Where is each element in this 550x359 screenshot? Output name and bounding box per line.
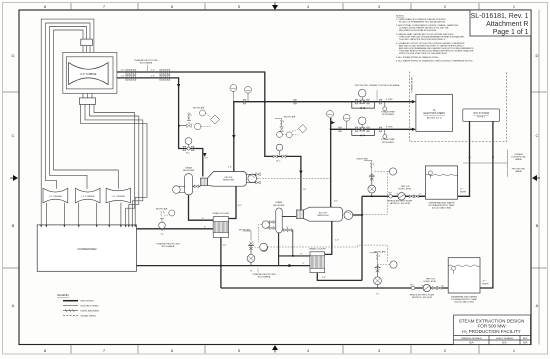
- svg-text:INSTR. AIR (NEW): INSTR. AIR (NEW): [81, 310, 100, 313]
- svg-text:NOTE 1: NOTE 1: [477, 117, 486, 119]
- LP turbine 2: [75, 188, 100, 203]
- svg-text:Page 1 of 1: Page 1 of 1: [493, 29, 529, 36]
- reboiler1 drain to drain cooler 1: [229, 186, 237, 218]
- svg-text:3 LPM: 3 LPM: [386, 99, 392, 101]
- svg-text:NO: NO: [389, 193, 393, 195]
- svg-text:3.5": 3.5": [238, 205, 242, 207]
- station1 bypass: [352, 102, 375, 108]
- svg-text:N/A: N/A: [502, 341, 507, 344]
- svg-text:HIGH LEVEL: HIGH LEVEL: [399, 188, 413, 190]
- PUMP 2 reboiler feed: [410, 278, 444, 299]
- feedwater: pump1 line, drop to reboiler2 right end: [353, 196, 426, 280]
- HP outer casing rect: [63, 52, 117, 93]
- junction dots: [220, 101, 373, 267]
- svg-text:STEAM TRAP: STEAM TRAP: [381, 111, 395, 114]
- svg-text:DRAIN: DRAIN: [185, 166, 192, 169]
- center alignment arrows: [272, 3, 278, 11]
- protected / owner area divider right: [463, 162, 507, 164]
- svg-text:4. STEAM AT OUTLET OF ELECTROL: 4. STEAM AT OUTLET OF ELECTROLYZERS CAN …: [396, 42, 465, 45]
- svg-text:A: A: [536, 303, 539, 308]
- TITLE BLOCK bottom right: [454, 315, 531, 345]
- svg-text:AND RECYCLED WITHIN THE HYEF T: AND RECYCLED WITHIN THE HYEF TO IMPROVE …: [399, 44, 464, 47]
- svg-text:THIS MAY RESULT IN REDUCED REB: THIS MAY RESULT IN REDUCED REBOILER FEED…: [399, 50, 474, 53]
- R/O line 2 to tank2: [480, 121, 493, 288]
- receiver2 side outlet w valves: [282, 230, 293, 256]
- svg-text:1. TEMPORARY R/O TRAILER CAN B: 1. TEMPORARY R/O TRAILER CAN BE UTILIZED: [396, 18, 446, 21]
- svg-text:Attachment R: Attachment R: [486, 21, 528, 28]
- LP2 exhaust stubs: [79, 203, 97, 225]
- H2 ELECTROLYZERS box: [416, 95, 453, 132]
- svg-text:NEW PIPING: NEW PIPING: [81, 301, 94, 303]
- svg-text:INSTR. AIR: INSTR. AIR: [156, 208, 168, 211]
- svg-text:DRAIN COOLER: DRAIN COOLER: [212, 212, 229, 215]
- svg-text:D: D: [536, 53, 539, 58]
- svg-text:APPROX. 350 GPM: APPROX. 350 GPM: [412, 296, 432, 299]
- svg-text:W/ BYPASS: W/ BYPASS: [382, 141, 394, 144]
- svg-text:INSTR. AIR: INSTR. AIR: [284, 116, 296, 119]
- receiver2 inlet from reboiler2 left end: [282, 216, 296, 218]
- signal dashed from receiver2 level to east: [257, 178, 388, 262]
- instruments on header1: [232, 91, 234, 102]
- FRAME right inner band line: [538, 10, 540, 345]
- DEMIN TANK 1: [425, 166, 457, 210]
- LP3 exhaust stubs: [109, 203, 121, 225]
- stubs above bottom MSR: [83, 93, 92, 98]
- svg-text:THROUGH THE USE OF A REGENERAT: THROUGH THE USE OF A REGENERATIVE HEAT E…: [399, 36, 465, 39]
- DRAIN COOLER 2: [309, 248, 326, 273]
- STATION 1 (header y=101.7): [355, 84, 400, 116]
- svg-text:REV: REV: [523, 338, 528, 340]
- CV assembly on 14in drop (x=179, y=125.7) with interlock diamond: [178, 106, 220, 129]
- assembly 3 on pump2 line (x=377.5, y=288): [370, 250, 398, 295]
- svg-text:B: B: [536, 223, 539, 228]
- HP turbine: [69, 63, 109, 85]
- svg-text:BLDG AREA: BLDG AREA: [162, 245, 175, 248]
- svg-text:RECEIVER: RECEIVER: [183, 170, 195, 172]
- control valve station on receiver1 feed line y=148.5: [183, 138, 209, 160]
- instruments near header2 / riser: [327, 111, 334, 118]
- svg-text:1.4": 1.4": [151, 75, 155, 77]
- svg-text:5": 5": [303, 263, 305, 265]
- STATION 2 (header y=129.3): [355, 117, 396, 144]
- svg-text:PROTECTED OWNER CONTROLLED AR: PROTECTED OWNER CONTROLLED AREA: [355, 84, 400, 87]
- svg-text:THIS WILL IMPROVE PROCESS EFFI: THIS WILL IMPROVE PROCESS EFFICIENCY.: [399, 39, 446, 41]
- assembly on condenser line (x=162, y=228.8): [156, 208, 180, 249]
- svg-text:AREA: AREA: [516, 170, 522, 173]
- ACTIVE REBOILER 2: [296, 207, 352, 221]
- tank1 suction line: [406, 195, 426, 197]
- svg-text:SIGNAL (NEW): SIGNAL (NEW): [81, 315, 96, 318]
- fan-out from bottom MSR to right risers: [81, 104, 148, 123]
- LEGEND: [57, 293, 99, 318]
- pump2 segment through pump: [448, 287, 480, 289]
- svg-text:2.0": 2.0": [151, 70, 155, 72]
- svg-text:BLDG AREA: BLDG AREA: [258, 276, 271, 279]
- EXISTING PLANT (thin lines): [41, 19, 147, 225]
- crossover loop A outermost: down to condenser: [41, 19, 94, 225]
- svg-text:1.4": 1.4": [121, 75, 125, 77]
- svg-text:KETTLE: KETTLE: [224, 177, 233, 179]
- svg-text:SL-016181, Rev. 1: SL-016181, Rev. 1: [471, 13, 529, 20]
- svg-text:1.6": 1.6": [334, 201, 338, 203]
- MSR top box: [81, 39, 93, 46]
- stubs below top MSR: [83, 46, 90, 53]
- svg-text:REBOILER: REBOILER: [223, 180, 234, 182]
- svg-text:NO: NO: [411, 284, 415, 286]
- valve groups on extraction lines: [121, 60, 171, 80]
- svg-text:TURBINE BLDG: TURBINE BLDG: [412, 77, 414, 93]
- svg-text:DEMINERALIZED WATER: DEMINERALIZED WATER: [451, 295, 477, 298]
- svg-text:R/O SYSTEM: R/O SYSTEM: [473, 112, 488, 115]
- svg-text:REBOILER: REBOILER: [317, 215, 328, 217]
- svg-text:BLDG AREA: BLDG AREA: [140, 61, 153, 64]
- svg-text:LEGEND:: LEGEND:: [57, 293, 70, 297]
- svg-text:INSTR. AIR: INSTR. AIR: [193, 106, 205, 109]
- drain receiver1 bottom to drain cooler 1: [189, 195, 214, 220]
- interlock assembly near x=264.8 drop (second diamond): [273, 116, 307, 163]
- DEMIN TANK 2: [448, 258, 480, 304]
- LP1 exhaust stubs: [46, 203, 64, 225]
- svg-text:HIGH LEVEL: HIGH LEVEL: [424, 281, 438, 283]
- svg-text:REQUIRED FOR DETAILED DESIGN.: REQUIRED FOR DETAILED DESIGN.: [399, 29, 437, 32]
- svg-text:1.6": 1.6": [303, 189, 307, 191]
- drain cooler2 bottom loop to feed riser: [317, 273, 362, 281]
- steam header 1 to electrolyzers + drop to kettle reboiler 1: [234, 102, 414, 172]
- MSR bottom box: [79, 98, 95, 105]
- svg-text:AREA: AREA: [516, 158, 522, 161]
- svg-text:B: B: [12, 223, 15, 228]
- svg-text:CONDENSER: CONDENSER: [77, 247, 97, 251]
- svg-text:N/A: N/A: [523, 341, 528, 344]
- crossover loop B -> LP1: [46, 23, 91, 189]
- svg-text:5": 5": [204, 227, 206, 229]
- svg-text:1.8": 1.8": [205, 158, 209, 160]
- svg-text:H.P. TURBINE: H.P. TURBINE: [80, 73, 96, 76]
- svg-text:DRAIN: DRAIN: [275, 201, 282, 204]
- svg-text:EXISTING PIPING: EXISTING PIPING: [81, 306, 100, 308]
- svg-text:N.C.: N.C.: [186, 153, 191, 155]
- KETTLE REBOILER 1: [200, 172, 260, 187]
- flow arrows on piping: [177, 84, 416, 267]
- crossover loop C -> LP2: [50, 27, 88, 189]
- svg-text:5": 5": [202, 218, 204, 220]
- svg-text:L.P. TURBINE: L.P. TURBINE: [81, 196, 95, 198]
- svg-text:L.P. TURBINE: L.P. TURBINE: [112, 196, 126, 198]
- svg-text:4": 4": [419, 194, 421, 196]
- NOTES block: [396, 16, 475, 63]
- svg-text:STORAGE/SUPPLY TANK: STORAGE/SUPPLY TANK: [429, 204, 455, 207]
- svg-text:1.5": 1.5": [335, 240, 339, 242]
- svg-text:3. WASTE HEAT CAN BE RECYCLED: 3. WASTE HEAT CAN BE RECYCLED WITHIN THE…: [396, 33, 454, 36]
- owner controlled dashed boundary box: [409, 72, 506, 142]
- svg-text:5. ALL STEAM PIPING IS CARBON: 5. ALL STEAM PIPING IS CARBON STEEL.: [396, 56, 439, 59]
- svg-text:C: C: [12, 133, 15, 138]
- assembly 2 on pump1 line (x=371.8, y=196.3): [357, 157, 397, 214]
- svg-text:1.5": 1.5": [322, 277, 326, 279]
- svg-text:D: D: [12, 53, 15, 58]
- svg-text:HDPE: HDPE: [460, 191, 467, 193]
- svg-text:1.6": 1.6": [121, 70, 125, 72]
- svg-text:HDPE: HDPE: [483, 283, 490, 285]
- DRAIN RECEIVER 2: [276, 208, 282, 233]
- HP inner casing rect: [66, 57, 113, 89]
- svg-text:SHEET NUMBER: SHEET NUMBER: [496, 338, 514, 340]
- svg-text:3 LPM: 3 LPM: [386, 126, 392, 128]
- LP turbine 3: [106, 188, 130, 203]
- condenser inlet arrowheads: [40, 225, 136, 228]
- svg-text:STORAGE/SUPPLY TANK: STORAGE/SUPPLY TANK: [451, 298, 477, 301]
- svg-text:5": 5": [301, 254, 303, 256]
- svg-text:AND REDUCE DEMINERALIZED WATER: AND REDUCE DEMINERALIZED WATER PRODUCTIO…: [399, 47, 475, 50]
- svg-text:PIPES ON THE HYEF SIDE OF THE: PIPES ON THE HYEF SIDE OF THE REBOILER.: [399, 53, 448, 55]
- DRAIN COOLER 1: [212, 212, 229, 238]
- PUMP 1 reboiler feed: [388, 186, 422, 205]
- svg-text:CONNECTIONS, RELIEF VALVES, ET: CONNECTIONS, RELIEF VALVES, ETC) WILL BE: [399, 27, 449, 30]
- DRAIN RECEIVER 1: [185, 174, 193, 195]
- svg-text:(NOTES 3 & 4): (NOTES 3 & 4): [427, 117, 442, 119]
- svg-text:STEAM TRAP: STEAM TRAP: [381, 138, 395, 141]
- R/O SYSTEM box: [463, 109, 500, 121]
- svg-text:2. ADDITIONAL COMPONENTS (VENT: 2. ADDITIONAL COMPONENTS (VENTS, DRAINS,…: [396, 24, 459, 27]
- svg-text:4": 4": [442, 285, 444, 287]
- svg-text:3.5": 3.5": [223, 245, 227, 247]
- R/O line 1 to tank1: [458, 121, 470, 196]
- svg-text:L.P. TURBINE: L.P. TURBINE: [49, 196, 63, 198]
- crossover loop D -> LP3: [54, 30, 119, 189]
- station2 bypass: [352, 129, 375, 135]
- svg-text:ELECTROLYZERS: ELECTROLYZERS: [424, 112, 446, 115]
- receiver1 overhead valve line (y=148.5 upper assembly): [187, 138, 189, 140]
- extraction line lower 14in: HP to reboiler 1 tube inlet: [117, 78, 203, 177]
- svg-text:W/ BYPASS: W/ BYPASS: [382, 113, 394, 116]
- reboiler2 drain to drain cooler2: [325, 221, 332, 254]
- svg-text:ACTIVE: ACTIVE: [319, 212, 327, 215]
- svg-text:NOTES:: NOTES:: [396, 16, 405, 18]
- extraction line upper 20in: HP to drop at x=264.8: [117, 72, 301, 210]
- svg-text:INSTR. AIR: INSTR. AIR: [357, 157, 369, 160]
- svg-text:DRAIN COOLER: DRAIN COOLER: [309, 248, 326, 251]
- TITLE BOX top right: [470, 10, 531, 36]
- svg-text:N/A: N/A: [469, 341, 474, 344]
- svg-text:1.6": 1.6": [228, 167, 232, 169]
- condenser condensate line to drain cooler 1: [137, 228, 214, 230]
- CONDENSER: [37, 225, 136, 271]
- drain receiver2 bottom to drain cooler2: [279, 233, 310, 266]
- LP turbine 1: [43, 188, 68, 203]
- svg-text:DEMINERALIZED WATER: DEMINERALIZED WATER: [428, 202, 454, 205]
- svg-text:6. ALL WATER PIPING IS STAINLE: 6. ALL WATER PIPING IS STAINLESS STEEL U…: [396, 59, 473, 62]
- receiver1 level instrument: [176, 186, 184, 188]
- svg-text:FOR 500 MW: FOR 500 MW: [477, 324, 506, 329]
- drain cooler1 outlet down / long line to drain cooler2: [137, 238, 311, 289]
- svg-text:APPROX. 350 GPM: APPROX. 350 GPM: [390, 202, 410, 205]
- svg-text:RECEIVER: RECEIVER: [273, 205, 285, 207]
- svg-text:H₂ PRODUCTION FACILITY: H₂ PRODUCTION FACILITY: [462, 329, 520, 334]
- steam header 2 from riser to electrolyzers: [331, 118, 414, 207]
- reboiler1 to receiver1 drain line: [193, 185, 201, 187]
- svg-text:A: A: [12, 303, 15, 308]
- svg-text:(50,000 GALLONS): (50,000 GALLONS): [454, 301, 473, 304]
- long bottom feed line to tank2: [221, 287, 448, 289]
- assembly 1 on long line (x=251, y=265.6): [239, 229, 276, 279]
- svg-text:DRAWING NUMBER: DRAWING NUMBER: [461, 337, 482, 340]
- svg-text:IN LIEU OF PERMANENT R/O INSTA: IN LIEU OF PERMANENT R/O INSTALLATION.: [399, 21, 446, 24]
- svg-text:C: C: [536, 133, 539, 138]
- svg-text:(50,000 GALLONS): (50,000 GALLONS): [432, 207, 451, 210]
- svg-text:N.C.: N.C.: [277, 161, 282, 163]
